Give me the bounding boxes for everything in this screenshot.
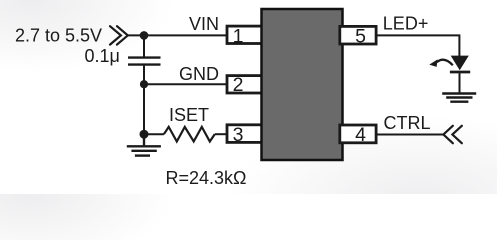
svg-text:GND: GND: [179, 64, 219, 84]
svg-text:2: 2: [233, 74, 244, 96]
svg-text:3: 3: [233, 124, 244, 146]
svg-text:ISET: ISET: [169, 105, 209, 125]
svg-text:VIN: VIN: [189, 14, 219, 34]
svg-text:5: 5: [355, 26, 366, 48]
svg-text:4: 4: [355, 124, 366, 146]
svg-text:R=24.3kΩ: R=24.3kΩ: [166, 168, 247, 188]
svg-text:1: 1: [233, 26, 244, 48]
svg-text:CTRL: CTRL: [384, 113, 431, 133]
svg-text:2.7 to 5.5V: 2.7 to 5.5V: [15, 26, 102, 46]
svg-text:0.1μ: 0.1μ: [85, 46, 120, 66]
svg-text:LED+: LED+: [383, 13, 429, 33]
